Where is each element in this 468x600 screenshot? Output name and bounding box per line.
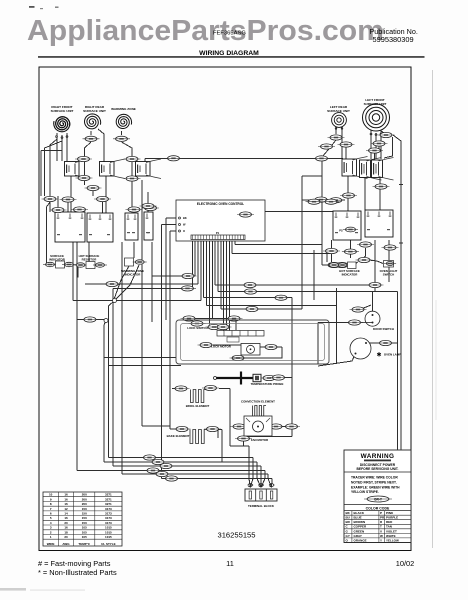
svg-text:150: 150 [82, 521, 87, 525]
wire segment [162, 478, 273, 480]
wire segment [218, 429, 222, 431]
wire segment [46, 202, 50, 266]
wire network [41, 127, 403, 488]
wire segment [234, 240, 236, 245]
connector oval at 50,199 [42, 196, 59, 201]
connector oval at 346,144.5 [338, 142, 355, 147]
svg-text:RED: RED [386, 520, 393, 524]
svg-text:YELLOW STRIPE.: YELLOW STRIPE. [351, 490, 379, 494]
svg-text:INDICATOR: INDICATOR [342, 273, 359, 277]
connector oval at 102.5,199 [94, 196, 111, 201]
svg-text:5995380309: 5995380309 [373, 35, 414, 44]
svg-text:316255155: 316255155 [217, 531, 255, 540]
svg-text:16: 16 [64, 516, 68, 520]
wire segment [208, 240, 210, 325]
connector oval at 281,297.7 [273, 295, 290, 300]
surface switch right 2 [365, 210, 393, 237]
svg-text:GR-Y: GR-Y [374, 497, 383, 501]
wire segment [317, 323, 319, 365]
connector oval at 212.5,429 [204, 426, 221, 431]
wire segment [116, 265, 139, 299]
wire segment [194, 240, 196, 277]
svg-text:BK: BK [183, 216, 187, 220]
scan artifact bottom left [0, 588, 26, 591]
wire segment [92, 191, 94, 196]
connector oval at 358,309.5 [350, 307, 367, 312]
wire segment [144, 158, 146, 176]
svg-text:✱: ✱ [376, 352, 381, 359]
connector oval at 132,178.5 [124, 176, 141, 181]
wire segment [45, 141, 63, 196]
svg-text:10/02: 10/02 [396, 559, 415, 568]
wire segment [112, 288, 114, 466]
oven selector switch left 1 [55, 212, 85, 242]
wire segment [374, 153, 376, 160]
wire segment [291, 298, 293, 378]
surface unit coil left front [372, 114, 379, 121]
wire segment [77, 267, 79, 277]
diagram border [39, 67, 411, 551]
wire segment [122, 142, 133, 156]
connector oval at 182,429 [174, 426, 191, 431]
wire segment [211, 240, 213, 319]
electronic oven control box [176, 200, 265, 241]
svg-text:T: T [380, 525, 382, 529]
svg-text:P: P [380, 511, 382, 515]
connector oval at 162,474 [154, 471, 171, 476]
wire segment [221, 308, 302, 310]
svg-text:150: 150 [82, 507, 87, 511]
infinite switch right rear [100, 159, 126, 179]
wire segment [260, 466, 262, 479]
oven light switch [384, 261, 394, 268]
connector oval at 385.5,343 [377, 340, 394, 345]
wire segment [378, 146, 380, 150]
svg-text:WIRE: WIRE [47, 542, 55, 546]
svg-text:Y: Y [380, 538, 382, 542]
wire segment [41, 150, 62, 152]
wire segment [384, 137, 393, 158]
surface unit coil right front [54, 117, 70, 132]
wire segment [313, 250, 315, 300]
wire segment [257, 479, 261, 488]
svg-text:3173: 3173 [105, 521, 112, 525]
wire segment [113, 465, 261, 467]
page corner marks [29, 6, 35, 8]
oval in right switch [343, 227, 358, 232]
wire segment [281, 426, 297, 428]
connector oval at 206,345 [198, 342, 215, 347]
wire segment [88, 242, 90, 263]
wire segment [84, 181, 86, 185]
connector oval at 374.5,150.5 [366, 148, 383, 153]
wire segment [372, 292, 374, 312]
wire segment [85, 142, 92, 175]
wire segment [172, 388, 175, 390]
wire segment [353, 262, 358, 265]
connector oval at 234,318.5 [226, 316, 243, 321]
broil element [191, 390, 207, 403]
connector oval at 149.5,457.5 [141, 455, 158, 460]
svg-text:NOTED FIRST, STRIPE NEXT.: NOTED FIRST, STRIPE NEXT. [351, 480, 397, 484]
wire segment [152, 275, 195, 277]
connector oval at 243.5,438.5 [235, 436, 252, 441]
wire segment [109, 457, 254, 459]
svg-text:12: 12 [64, 507, 68, 511]
svg-text:TAN: TAN [386, 525, 392, 529]
svg-text:INDICATOR: INDICATOR [49, 258, 66, 262]
connector oval at 291.5,426.5 [283, 424, 300, 429]
wire segment [206, 240, 208, 306]
connector oval at 350.4,251.6 [342, 249, 359, 254]
wire segment [50, 139, 57, 196]
infinite switch left front B [372, 158, 394, 181]
svg-text:GY: GY [346, 534, 350, 538]
wire segment [271, 478, 273, 480]
svg-text:SURFACE UNIT: SURFACE UNIT [51, 109, 74, 113]
connector oval at 171.5,478.5 [163, 476, 180, 481]
wire segment [268, 479, 272, 488]
connector oval at 336,137.5 [328, 135, 345, 140]
wire segment [122, 473, 268, 475]
svg-text:PINK: PINK [386, 511, 394, 515]
surface switch right 1 [333, 211, 361, 240]
svg-text:AWG: AWG [62, 542, 70, 546]
wire segment [366, 342, 398, 344]
connector oval at 112,284 [104, 281, 121, 286]
terminal block [245, 489, 277, 501]
wire segment [380, 130, 382, 159]
connector oval at 93,188 [85, 185, 102, 190]
connector oval at 134,209.5 [126, 207, 143, 212]
wire segment [233, 426, 245, 428]
svg-text:WARMING ZONE: WARMING ZONE [111, 107, 136, 111]
connector oval at 364,260 [356, 257, 373, 262]
connector oval at 238,358 [230, 355, 247, 360]
svg-text:P1: P1 [216, 231, 220, 235]
wire segment [302, 175, 322, 177]
svg-text:3173: 3173 [105, 512, 112, 516]
infinite switch right front [65, 159, 91, 179]
wire segment [207, 305, 337, 307]
connector oval at 276,426.5 [268, 424, 285, 429]
scan artifact line right [432, 70, 434, 548]
infinite switch left rear [342, 157, 368, 179]
svg-text:200: 200 [82, 497, 87, 501]
relay box left 4 [144, 212, 153, 240]
wire segment [322, 264, 329, 266]
wire segment [200, 240, 202, 301]
connector oval at 348.5,195.5 [340, 193, 357, 198]
connector oval at 321.5,158.4 [313, 156, 330, 161]
svg-text:GREEN: GREEN [354, 529, 365, 533]
svg-text:SURFACE UNIT: SURFACE UNIT [327, 109, 350, 113]
svg-text:OVEN LAMP: OVEN LAMP [384, 353, 401, 357]
connector oval at 79.5,209.5 [71, 207, 88, 212]
svg-text:AppliancePartsPros.com: AppliancePartsPros.com [27, 15, 384, 47]
junction node a [113, 299, 117, 303]
svg-text:200: 200 [82, 502, 87, 506]
connector oval at 150.5,208 [142, 205, 159, 210]
wire segment [235, 319, 237, 331]
svg-text:O: O [183, 229, 185, 233]
wire segment [231, 240, 233, 254]
wire segment [341, 127, 343, 159]
warming zone indicator [125, 258, 134, 266]
wire segment [388, 240, 390, 260]
wire segment [90, 131, 92, 135]
connector oval at 223,327 [215, 324, 232, 329]
wire segment [77, 470, 265, 472]
connector oval at 153,470.5 [145, 468, 162, 473]
connector oval at 379,143.5 [371, 141, 388, 146]
wire segment [170, 428, 176, 430]
svg-text:10: 10 [49, 493, 53, 497]
wire segment [141, 180, 143, 426]
wire segment [370, 130, 372, 159]
svg-text:TEMPERATURE PROBE: TEMPERATURE PROBE [251, 382, 284, 386]
wire segment [301, 176, 303, 309]
wire segment [252, 458, 254, 479]
wire segment [397, 292, 399, 450]
wire segment [109, 364, 182, 366]
wire segment [364, 176, 366, 211]
svg-text:TERMINAL BLOCK: TERMINAL BLOCK [248, 504, 275, 508]
svg-text:TRACER WIRE: WIRE COLOR: TRACER WIRE: WIRE COLOR [351, 476, 398, 480]
wire segment [205, 387, 216, 389]
connector oval at 132,159 [124, 156, 141, 161]
svg-text:16: 16 [64, 502, 68, 506]
connector oval at 375,285 [367, 282, 384, 287]
wire segment [214, 240, 216, 286]
svg-text:COLOR CODE: COLOR CODE [366, 506, 390, 510]
svg-text:CONVECTION ELEMENT: CONVECTION ELEMENT [241, 400, 275, 404]
svg-text:ELECTRONIC OVEN CONTROL: ELECTRONIC OVEN CONTROL [197, 202, 244, 206]
connector oval at 354.5,322.5 [346, 320, 363, 325]
oven selector switch left 2 [87, 213, 113, 242]
wire segment [399, 184, 403, 186]
svg-text:20: 20 [64, 521, 68, 525]
wire segment [228, 240, 230, 331]
svg-text:3173: 3173 [105, 507, 112, 511]
svg-text:BU: BU [346, 516, 350, 520]
connector oval at 326.5,146.5 [318, 144, 335, 149]
connector oval at 181,388.5 [173, 386, 190, 391]
svg-text:105: 105 [82, 526, 87, 530]
wire segment [113, 287, 192, 289]
bake element [190, 430, 207, 444]
wire segment [336, 288, 338, 364]
wire segment [223, 240, 225, 332]
svg-text:BROIL ELEMENT: BROIL ELEMENT [186, 404, 210, 408]
svg-text:YELLOW: YELLOW [386, 538, 399, 542]
connector oval at 269,378 [261, 375, 278, 380]
connector oval at 58,210 [50, 207, 67, 212]
temperature probe [216, 377, 253, 379]
wire segment [161, 225, 163, 479]
svg-text:GRAY: GRAY [354, 534, 362, 538]
wire segment [235, 244, 322, 246]
svg-text:# = Fast-moving Parts: # = Fast-moving Parts [38, 559, 111, 568]
wire segment [131, 181, 133, 210]
wire segment [232, 252, 331, 254]
svg-text:1015: 1015 [105, 526, 112, 530]
connector oval at 187.5,288.4 [179, 286, 196, 291]
wire segment [147, 192, 149, 212]
surface indicator lamp [43, 262, 57, 266]
wire segment [379, 176, 381, 211]
connector oval at 250,285 [242, 282, 259, 287]
wire segment [369, 260, 383, 264]
wire segment [104, 461, 257, 463]
svg-text:14: 14 [64, 512, 68, 516]
wire segment [162, 224, 177, 226]
connector oval at 173.5,158.3 [165, 156, 182, 161]
wire segment [220, 240, 222, 310]
wire segment [229, 389, 231, 446]
hot surface resistor [74, 263, 88, 267]
wire segment [72, 242, 74, 301]
junction node b [104, 319, 108, 323]
connector oval at 158,462 [150, 459, 167, 464]
wire segment [49, 202, 51, 212]
wire segment [347, 176, 349, 212]
wire segment [248, 446, 250, 479]
svg-text:150: 150 [82, 512, 87, 516]
wire segment [56, 133, 58, 161]
svg-text:PURPLE: PURPLE [386, 516, 398, 520]
wire segment [61, 135, 63, 161]
wire segment [121, 131, 123, 135]
svg-text:3271: 3271 [105, 493, 112, 497]
wire segment [393, 135, 401, 450]
connector oval at 252,309 [244, 306, 261, 311]
wire segment [381, 131, 384, 133]
svg-text:20: 20 [64, 535, 68, 539]
wire segment [388, 267, 390, 282]
wire segment [243, 441, 245, 446]
warming zone coil [116, 114, 131, 128]
svg-text:LOCK SWITCH: LOCK SWITCH [187, 326, 207, 330]
connector oval at 68,199.5 [60, 197, 77, 202]
wire segment [219, 388, 230, 390]
wire segment [105, 176, 107, 214]
connector oval at 321,199.6 [313, 197, 330, 202]
connector oval at 189,318.5 [181, 316, 198, 321]
svg-text:VIOLET: VIOLET [386, 529, 397, 533]
wire segment [40, 151, 42, 197]
connector oval at 314,201.7 [306, 199, 323, 204]
svg-text:WHITE: WHITE [386, 534, 396, 538]
connector oval at 83.5,159 [75, 156, 92, 161]
svg-text:3271: 3271 [105, 497, 112, 501]
wire segment [197, 240, 199, 285]
svg-text:SWITCH: SWITCH [383, 273, 394, 277]
wire segment [350, 240, 352, 258]
wire segment [345, 147, 347, 160]
wire segment [59, 265, 62, 267]
convection element [253, 406, 267, 417]
svg-text:105: 105 [82, 535, 87, 539]
wire segment [291, 378, 293, 437]
wire segment [260, 479, 262, 488]
connector oval at 365.5,244.5 [357, 242, 374, 247]
svg-text:BEFORE SERVICING UNIT.: BEFORE SERVICING UNIT. [357, 467, 399, 471]
connector oval at 197,323.5 [189, 321, 206, 326]
svg-text:SURFACE UNIT: SURFACE UNIT [364, 102, 387, 106]
connector oval at 166,466 [158, 463, 175, 468]
svg-text:RESISTOR: RESISTOR [82, 258, 98, 262]
connector oval at 188,276 [180, 273, 197, 278]
wire segment [183, 318, 236, 320]
wire segment [204, 297, 292, 299]
wire segment [85, 283, 198, 285]
svg-text:* = Non-Illustrated Parts: * = Non-Illustrated Parts [38, 568, 117, 577]
wire segment [318, 322, 355, 324]
connector oval at 239,426.5 [231, 424, 248, 429]
wire segment [249, 479, 250, 488]
relay box left 3 [125, 213, 138, 240]
svg-text:3173: 3173 [105, 516, 112, 520]
connector oval at 89.9,319.5 [81, 317, 98, 322]
wire segment [66, 133, 68, 161]
wire segment [151, 242, 153, 322]
wire segment [133, 242, 135, 258]
svg-text:18: 18 [64, 530, 68, 534]
infinite switch warming zone [136, 159, 162, 179]
svg-text:BAKE ELEMENT: BAKE ELEMENT [167, 434, 190, 438]
connector oval at 91,138.8 [83, 136, 100, 141]
oven lamp [350, 338, 371, 359]
convection fan motor [244, 416, 272, 436]
wire segment [318, 354, 356, 367]
wire segment [374, 240, 376, 292]
svg-text:150: 150 [82, 516, 87, 520]
svg-text:WIRING DIAGRAM: WIRING DIAGRAM [199, 50, 259, 57]
wire segment [131, 162, 133, 176]
wire segment [207, 429, 218, 438]
connector oval at 278.5,377.5 [270, 375, 287, 380]
connector oval at 121.5,138.8 [113, 136, 130, 141]
surface unit coil right rear [85, 114, 101, 129]
wire segment [73, 300, 201, 302]
connector oval at 381,186.5 [373, 184, 390, 189]
wire segment [261, 479, 265, 488]
infinite switch left front A [360, 158, 382, 181]
wire segment [302, 199, 345, 201]
svg-text:INDICATOR: INDICATOR [125, 272, 142, 276]
connector oval at 331.5,251 [323, 248, 340, 253]
svg-text:WARNING: WARNING [361, 453, 395, 460]
wire segment [215, 284, 375, 286]
svg-text:16: 16 [64, 497, 68, 501]
wire segment [271, 479, 273, 488]
door switch [365, 311, 380, 326]
connector oval at 334,265 [326, 262, 343, 267]
wire segment [104, 321, 106, 463]
wire segment [67, 202, 69, 212]
door lock assembly [176, 320, 329, 364]
wire segment [230, 445, 249, 447]
wire segment [321, 248, 323, 265]
wire segment [250, 479, 253, 488]
wire segment [399, 242, 403, 244]
wire segment [79, 212, 81, 213]
wire segment [203, 240, 205, 298]
wire segment [256, 462, 258, 479]
wire segment [265, 210, 333, 212]
connector oval at 386,135 [378, 132, 395, 137]
